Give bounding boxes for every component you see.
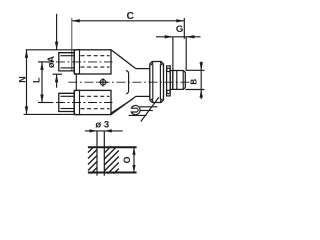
section: panel top line bbox=[88, 146, 137, 148]
top port cap (release ring) bbox=[74, 50, 79, 74]
top port centerline bbox=[40, 61, 113, 63]
Y body bottom diagonal bbox=[111, 96, 136, 114]
wrench jaw bbox=[131, 106, 140, 115]
o-ring bottom bbox=[167, 90, 171, 94]
wrench panel bottom line bbox=[129, 114, 147, 116]
tick N top / part top extension bbox=[26, 49, 75, 51]
dimension O line bbox=[132, 147, 135, 172]
stud collar bbox=[170, 71, 173, 90]
dimension line oA lower bbox=[55, 74, 58, 88]
svg-text:ø 3: ø 3 bbox=[95, 120, 109, 131]
tick L top bbox=[38, 61, 52, 63]
section: hatching left of hole bbox=[88, 148, 97, 174]
dimension G line bbox=[156, 35, 201, 38]
bottom port centerline bbox=[40, 102, 113, 104]
threaded stud bbox=[173, 71, 186, 90]
top port body bbox=[74, 50, 111, 74]
washer bbox=[167, 66, 171, 96]
extension line G right bbox=[185, 37, 187, 71]
bottom port body bbox=[74, 90, 111, 114]
dimension B ticks bbox=[186, 69, 205, 71]
bottom port cap (release ring) bbox=[74, 90, 79, 114]
neck top edge bbox=[136, 68, 150, 70]
dimension line oA upper (shared with C left extension) bbox=[55, 14, 58, 50]
section: dimension o3 line bbox=[85, 129, 123, 132]
neck bottom edge bbox=[136, 95, 150, 97]
extension line C right bbox=[183, 18, 185, 39]
section: hole edge right bbox=[103, 131, 105, 176]
section: hole edge left bbox=[96, 131, 98, 176]
svg-text:N: N bbox=[18, 76, 28, 83]
Y body top diagonal bbox=[111, 50, 136, 69]
dimension N line bbox=[25, 50, 28, 115]
svg-text:O: O bbox=[122, 156, 132, 163]
hex nut bbox=[150, 62, 164, 103]
wrench handle top line bbox=[140, 106, 158, 108]
node hole circle with cross bbox=[98, 78, 108, 86]
section: hatching right of hole bbox=[104, 148, 119, 174]
bottom port release button bbox=[59, 93, 75, 111]
top port release button bbox=[59, 53, 75, 71]
wrench panel right diagonal bbox=[141, 97, 159, 121]
svg-text:B: B bbox=[189, 79, 198, 85]
dimension L line bbox=[40, 62, 43, 103]
Y body right face bbox=[126, 70, 129, 94]
wrench handle bottom line bbox=[140, 110, 153, 112]
wrench leader line bbox=[110, 98, 133, 113]
dimension C line bbox=[72, 19, 185, 22]
extension line C left bbox=[71, 18, 73, 71]
tick oA bottom bbox=[53, 73, 63, 75]
dimension B line bbox=[200, 62, 203, 100]
bottom port bore hidden lines bbox=[81, 95, 110, 97]
svg-text:C: C bbox=[127, 10, 135, 22]
main centerline bbox=[68, 81, 193, 83]
svg-text:L: L bbox=[31, 77, 41, 83]
extension line G left bbox=[172, 37, 174, 71]
top port bore hidden lines bbox=[81, 55, 110, 57]
body face between caps bbox=[75, 74, 77, 91]
tick N bottom bbox=[24, 113, 75, 115]
section: panel bottom line bbox=[88, 172, 137, 174]
tick L bottom bbox=[38, 102, 52, 104]
o-ring top bbox=[167, 68, 171, 72]
svg-text:G: G bbox=[176, 24, 183, 35]
